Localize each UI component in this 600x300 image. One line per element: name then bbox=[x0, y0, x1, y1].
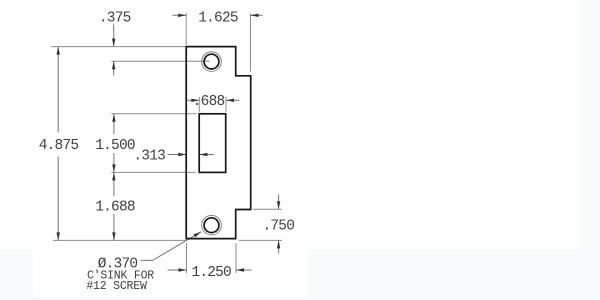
svg-text:1.625: 1.625 bbox=[198, 11, 238, 27]
background strip bottom bbox=[0, 297, 309, 300]
dimension .313 right line bbox=[199, 154, 214, 156]
svg-text:.688: .688 bbox=[193, 94, 225, 110]
arrowhead .688 right (left-pointing) bbox=[226, 99, 234, 102]
arrowhead 4.875 bottom bbox=[57, 232, 60, 240]
arrowhead leader (up-right) bbox=[194, 232, 202, 238]
svg-text:1.688: 1.688 bbox=[95, 200, 135, 216]
arrowhead .750 top (down) bbox=[277, 201, 280, 209]
background block bottom left bbox=[0, 250, 33, 300]
dimension .313 left line bbox=[168, 154, 187, 156]
dimension .750 upper line bbox=[278, 195, 280, 210]
background band right bbox=[580, 0, 600, 300]
arrowhead .313 right (left-pointing) bbox=[199, 153, 207, 156]
extension line above top-left corner bbox=[185, 13, 187, 45]
dimension 1.500 line lower bbox=[113, 153, 115, 172]
dimension .375 line from text bbox=[113, 25, 115, 47]
extension line top hole center bbox=[111, 60, 209, 62]
top screw hole outer bbox=[202, 52, 222, 72]
svg-text:1.250: 1.250 bbox=[191, 265, 231, 281]
bottom screw hole inner bbox=[204, 218, 219, 233]
extension line top edge (left) bbox=[51, 46, 185, 48]
arrowhead .375 top (down) bbox=[112, 39, 115, 47]
arrowhead 1.625 right (left-pointing) bbox=[251, 14, 259, 17]
extension line below bottom-left corner bbox=[186, 243, 188, 273]
bottom screw hole outer bbox=[202, 215, 222, 235]
dimension .750 lower arrow tail bbox=[278, 240, 280, 253]
arrowhead 1.688 top bbox=[112, 172, 115, 180]
extension line above lip right edge bbox=[250, 13, 252, 71]
extension line bottom edge (left) bbox=[53, 239, 185, 241]
arrowhead 4.875 top bbox=[57, 47, 60, 55]
extension line step right bbox=[253, 208, 282, 210]
arrowhead .688 left (right-pointing) bbox=[191, 99, 199, 102]
plate outline bbox=[186, 47, 251, 239]
arrowhead 1.250 right (left-pointing) bbox=[236, 268, 244, 271]
dimension .375 lower arrow tail bbox=[113, 61, 115, 75]
dimension 1.625 left line bbox=[173, 14, 187, 16]
dimension 1.688 line upper bbox=[113, 172, 115, 196]
extension line latch hole left up bbox=[198, 97, 200, 112]
arrowhead .750 bottom (up) bbox=[277, 240, 280, 248]
arrowhead 1.688 bottom bbox=[112, 232, 115, 240]
svg-text:1.500: 1.500 bbox=[95, 138, 135, 154]
latch hole bbox=[199, 114, 226, 173]
svg-text:4.875: 4.875 bbox=[39, 138, 79, 154]
dimension 1.688 line lower bbox=[113, 214, 115, 240]
extension line below bottom-right corner bbox=[235, 243, 237, 273]
dimension 4.875 line lower bbox=[57, 157, 59, 241]
background block bottom right bbox=[309, 250, 600, 300]
dimension .688 left line bbox=[186, 99, 199, 101]
arrowhead 1.250 left (right-pointing) bbox=[179, 268, 187, 271]
dimension .688 right line bbox=[226, 99, 240, 101]
dimension 4.875 line upper bbox=[57, 47, 59, 133]
leader line countersink note bbox=[141, 232, 202, 261]
extension line latch hole right up bbox=[225, 97, 227, 112]
arrowhead 1.625 left (right-pointing) bbox=[178, 14, 186, 17]
top screw hole inner bbox=[204, 54, 219, 69]
arrowhead .313 left (right-pointing) bbox=[178, 153, 186, 156]
svg-text:#12 SCREW: #12 SCREW bbox=[86, 280, 147, 293]
svg-text:.750: .750 bbox=[262, 219, 294, 235]
svg-text:.313: .313 bbox=[133, 149, 165, 165]
arrowhead 1.500 top bbox=[112, 114, 115, 122]
svg-text:.375: .375 bbox=[99, 10, 131, 26]
arrowhead 1.500 bottom bbox=[112, 164, 115, 172]
dimension 1.250 left line bbox=[168, 269, 187, 271]
dimension 1.625 right line bbox=[251, 14, 263, 16]
dimension 1.250 right line bbox=[236, 269, 252, 271]
arrowhead .375 bottom (up) bbox=[112, 61, 115, 69]
extension line latch hole top bbox=[111, 113, 196, 115]
extension line latch hole bottom bbox=[111, 171, 195, 173]
dimension 1.500 line upper bbox=[113, 114, 115, 134]
extension line bottom edge right bbox=[239, 239, 282, 241]
